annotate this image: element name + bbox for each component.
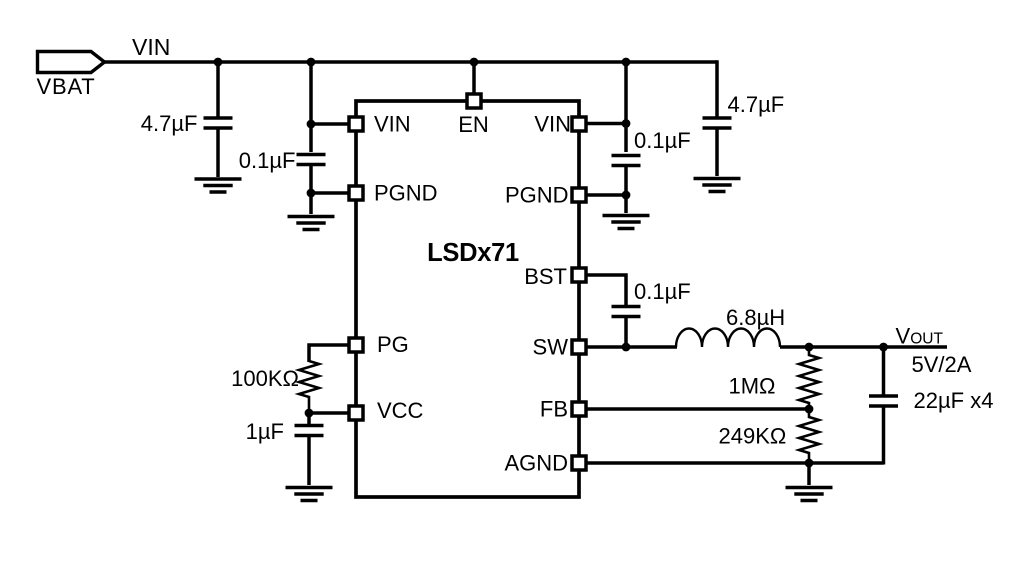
capacitor C7 22µF [869, 396, 898, 406]
svg-text:FB: FB [540, 397, 568, 422]
pin FB [540, 397, 586, 422]
wire C5 top [307, 413, 311, 426]
wire C2 bottom [309, 165, 313, 215]
svg-text:PGND: PGND [505, 183, 569, 208]
svg-text:0.1µF: 0.1µF [239, 148, 296, 173]
wire C7 bottom [882, 406, 886, 465]
wire C1 top [216, 62, 220, 118]
ground C1 [195, 179, 242, 192]
capacitor C3 0.1µF [612, 156, 641, 166]
inductor L1 6.8µH [676, 329, 780, 347]
junction C7 / SW line [879, 343, 888, 352]
wire R3 ground stub [807, 463, 811, 485]
wire to PGND pin (right) [587, 193, 626, 197]
wire SW [587, 345, 677, 349]
wire BST to C6 [587, 275, 626, 307]
capacitor C1 4.7µF [204, 118, 233, 128]
svg-text:AGND: AGND [504, 451, 568, 476]
junction C2 / PGND pin [307, 189, 316, 198]
junction VIN rail / C3 branch [622, 58, 631, 67]
wire C1 bottom [216, 128, 220, 177]
wire to PGND pin (left) [311, 191, 350, 195]
junction C3 / PGND pin (right) [622, 191, 631, 200]
wire C4 bottom [715, 128, 719, 176]
pin EN [458, 94, 489, 137]
junction C2 / VIN pin [307, 120, 316, 129]
svg-text:VOUT: VOUT [896, 324, 944, 349]
ground C2 [288, 217, 335, 230]
resistor R3 249KΩ [799, 409, 819, 463]
pin BST [524, 264, 586, 289]
ground R3 [786, 488, 833, 501]
wire C3 branch from rail [624, 62, 628, 152]
ground C4 [694, 179, 741, 192]
wire to VIN pin (left) [311, 122, 350, 126]
svg-text:VIN: VIN [374, 112, 411, 137]
wire EN [472, 62, 476, 94]
ground C5 [286, 488, 333, 501]
svg-text:249KΩ: 249KΩ [719, 424, 787, 449]
wire C4 top [715, 62, 717, 118]
wire C7 top [882, 347, 886, 396]
pin PG [349, 332, 409, 357]
svg-text:VBAT: VBAT [37, 74, 96, 99]
svg-text:LSDx71: LSDx71 [427, 239, 519, 267]
junction AGND node [805, 459, 814, 468]
svg-text:0.1µF: 0.1µF [634, 128, 691, 153]
resistor R1 100KΩ [299, 361, 319, 413]
capacitor C5 1µF [295, 426, 324, 436]
svg-text:1µF: 1µF [246, 419, 284, 444]
svg-text:VIN: VIN [132, 34, 170, 60]
junction C6 / SW [622, 343, 631, 352]
svg-text:5V/2A: 5V/2A [912, 352, 972, 377]
wire C2 branch from rail [309, 62, 313, 152]
resistor R2 1MΩ [799, 347, 819, 409]
connector VBAT [38, 52, 105, 73]
wire PG to R1 [309, 345, 350, 362]
svg-text:PG: PG [377, 332, 409, 357]
junction C3 / VIN pin (right) [622, 119, 631, 128]
wire to VIN pin (right) [587, 122, 626, 126]
pin AGND [504, 451, 586, 476]
svg-text:0.1µF: 0.1µF [634, 279, 691, 304]
wire C6 bottom [624, 317, 628, 348]
capacitor C6 0.1µF [612, 307, 641, 317]
junction VIN rail / C1 [214, 58, 223, 67]
svg-text:VIN: VIN [534, 112, 571, 137]
capacitor C4 4.7µF [703, 118, 732, 128]
svg-text:4.7µF: 4.7µF [141, 111, 198, 136]
wire VIN rail [105, 60, 718, 64]
wire C3 bottom [624, 166, 628, 214]
svg-text:100KΩ: 100KΩ [231, 366, 299, 391]
svg-text:VCC: VCC [377, 398, 424, 423]
pin SW [533, 335, 586, 360]
ground C3 [603, 216, 650, 229]
junction FB node [805, 405, 814, 414]
wire C5 bottom [307, 436, 311, 486]
svg-text:4.7µF: 4.7µF [728, 92, 785, 117]
junction VCC node [305, 409, 314, 418]
svg-text:1MΩ: 1MΩ [729, 374, 776, 399]
junction VIN rail / EN [470, 58, 479, 67]
svg-text:PGND: PGND [374, 181, 438, 206]
pin VCC [349, 398, 424, 423]
junction VIN rail / C2 branch [307, 58, 316, 67]
capacitor C2 0.1µF [297, 155, 326, 165]
svg-text:SW: SW [533, 335, 569, 360]
junction R2 / SW line [805, 343, 814, 352]
pin VIN (right) [534, 112, 586, 137]
svg-text:22µF x4: 22µF x4 [914, 388, 994, 413]
IC U1 body [356, 101, 579, 497]
wire FB [587, 407, 809, 411]
svg-text:6.8µH: 6.8µH [726, 305, 785, 330]
pin PGND (left) [349, 181, 438, 206]
svg-text:EN: EN [458, 112, 489, 137]
wire VCC [309, 411, 350, 415]
svg-text:BST: BST [524, 264, 567, 289]
pin PGND (right) [505, 183, 586, 208]
wire AGND [587, 461, 884, 465]
wire L1 to VOUT [780, 345, 947, 349]
pin VIN (left) [349, 112, 411, 137]
